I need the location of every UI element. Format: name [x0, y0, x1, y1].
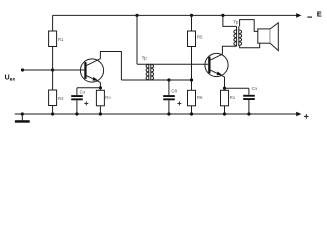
svg-text:Rэ: Rэ: [105, 95, 111, 100]
node Cb junction: [167, 78, 170, 81]
node R6 ground junction: [190, 112, 193, 115]
node T1 emitter junction: [99, 86, 102, 89]
wire Tr2 primary top: [223, 15, 237, 26]
wire Tr1 bottom horizontal: [121, 79, 191, 81]
wire bottom common rail: [15, 113, 297, 115]
node Cb ground junction: [167, 112, 170, 115]
svg-text:R5: R5: [197, 35, 203, 40]
svg-text:Сб: Сб: [171, 89, 177, 94]
wire Tr1 top horizontal / base T2: [137, 63, 208, 65]
transistor T1: [80, 59, 103, 82]
svg-text:R6: R6: [197, 95, 203, 100]
wire R2 bottom lead: [52, 106, 54, 115]
wire R1 top lead: [52, 15, 54, 31]
svg-text:R1: R1: [58, 37, 64, 42]
svg-text:Rэ: Rэ: [230, 95, 236, 100]
resistor R5: [188, 31, 196, 47]
svg-text:Тр: Тр: [142, 56, 148, 61]
resistor Re2: [224, 88, 226, 90]
wire Tr2 secondary top to speaker: [240, 20, 258, 32]
transistor T2: [205, 53, 228, 76]
capacitor Cb: [168, 80, 170, 95]
node bias junction: [190, 78, 193, 81]
wire T2 emitter lead: [224, 77, 226, 88]
wire emitter to Ce2: [225, 87, 249, 89]
node Ce1 ground junction: [75, 112, 78, 115]
node Re1 ground junction: [99, 112, 102, 115]
capacitor Ce2: [248, 88, 250, 95]
minus sign of supply: [307, 16, 312, 18]
node R5 top rail junction: [190, 14, 193, 17]
wire Tr1 primary top riser: [136, 15, 138, 64]
resistor R6: [188, 90, 196, 106]
node Tr1 primary top rail junction: [135, 14, 138, 17]
top rail arrowhead: [296, 13, 301, 18]
svg-text:R2: R2: [58, 96, 64, 101]
node T2 emitter junction: [223, 87, 226, 90]
svg-text:Cэ: Cэ: [80, 90, 86, 95]
node R2 ground junction: [51, 112, 54, 115]
node Ce2 ground junction: [247, 112, 250, 115]
wire base T1: [53, 69, 85, 71]
resistor R2: [49, 90, 57, 106]
wire top supply rail: [53, 14, 297, 16]
wire input: [23, 69, 53, 71]
svg-text:Cэ: Cэ: [252, 86, 258, 91]
resistor Re1: [99, 88, 101, 91]
node ground junction: [21, 112, 24, 115]
node Tr2 primary top rail junction: [221, 14, 224, 17]
ground: [21, 114, 23, 120]
bottom rail arrowhead: [296, 112, 301, 117]
node input terminal: [21, 68, 24, 71]
wire R5 bottom lead: [191, 47, 193, 91]
wire T1 collector riser: [100, 52, 121, 81]
wire T2 collector riser: [222, 46, 236, 54]
svg-text:Тр: Тр: [233, 20, 239, 25]
speaker: [258, 29, 270, 43]
wire emitter to Ce1: [77, 87, 101, 89]
wire Tr2 secondary bottom to speaker: [240, 43, 260, 48]
resistor R1: [49, 31, 57, 47]
svg-text:Uвх: Uвх: [5, 75, 16, 83]
node Re2 ground junction: [223, 112, 226, 115]
wire T1 emitter lead: [99, 82, 101, 87]
capacitor Ce1: [76, 88, 78, 95]
wire R5 top lead: [191, 15, 193, 31]
plus sign of supply: [304, 114, 309, 119]
wire R1 bottom to R2 top: [52, 47, 54, 91]
node base divider junction: [51, 68, 54, 71]
svg-text:E: E: [317, 10, 322, 19]
